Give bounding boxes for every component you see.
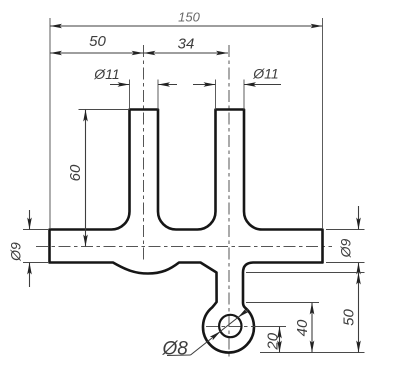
svg-text:60: 60 xyxy=(67,164,84,181)
svg-text:20: 20 xyxy=(265,332,282,350)
svg-text:50: 50 xyxy=(89,33,106,50)
svg-text:34: 34 xyxy=(178,36,195,53)
svg-text:40: 40 xyxy=(294,319,311,336)
svg-text:Ø11: Ø11 xyxy=(252,66,278,82)
svg-text:Ø11: Ø11 xyxy=(93,66,119,82)
svg-text:Ø9: Ø9 xyxy=(338,238,354,258)
svg-text:Ø8: Ø8 xyxy=(162,339,189,360)
svg-text:150: 150 xyxy=(178,10,200,25)
svg-text:50: 50 xyxy=(341,309,358,326)
svg-text:Ø9: Ø9 xyxy=(8,242,24,262)
